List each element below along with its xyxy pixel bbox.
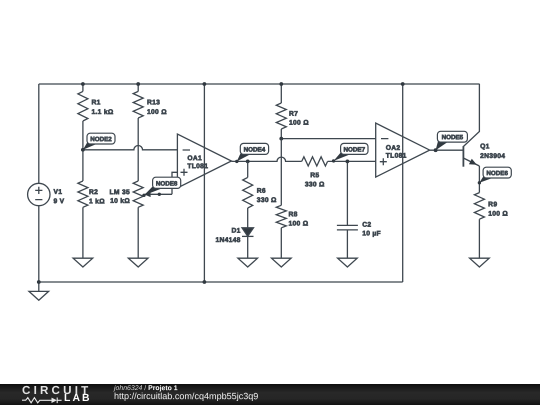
- wire OA1 output: [231, 157, 301, 161]
- transistor Q1 collector: [463, 84, 479, 147]
- svg-text:2N3904: 2N3904: [480, 153, 505, 160]
- svg-text:R2: R2: [89, 189, 98, 196]
- svg-text:OA2: OA2: [386, 145, 401, 152]
- svg-text:TL081: TL081: [187, 163, 208, 170]
- wire node2 row: [83, 146, 177, 150]
- wire OA1 plus lead: [172, 172, 177, 194]
- svg-text:10 kΩ: 10 kΩ: [110, 198, 130, 205]
- svg-text:R7: R7: [289, 111, 298, 118]
- resistor R8: [280, 139, 282, 206]
- junction node2: [81, 148, 85, 152]
- node NODE4: [237, 151, 252, 161]
- wire V1 top lead: [38, 84, 40, 183]
- svg-text:C2: C2: [362, 222, 371, 229]
- wire OA1 power pins: [203, 84, 205, 282]
- resistor R6: [247, 161, 249, 177]
- op-amp OA1: [177, 134, 231, 188]
- node NODE6: [479, 175, 494, 183]
- svg-text:1.1 kΩ: 1.1 kΩ: [91, 109, 113, 116]
- potentiometer wiper arrow: [144, 192, 151, 198]
- wire feedback row: [281, 138, 375, 140]
- node NODE8: [144, 185, 164, 195]
- svg-text:NODE4: NODE4: [244, 146, 266, 153]
- diode D1: [242, 228, 254, 236]
- svg-text:D1: D1: [232, 228, 241, 235]
- junction OA2 vplus: [401, 82, 405, 86]
- svg-text:10 µF: 10 µF: [362, 230, 381, 237]
- svg-text:R1: R1: [91, 99, 100, 106]
- ground under R9: [470, 258, 490, 267]
- junction feedback: [279, 137, 283, 141]
- wire V1 bottom lead: [38, 206, 40, 282]
- transistor Q1 emitter: [463, 158, 479, 166]
- svg-text:100 Ω: 100 Ω: [488, 211, 508, 218]
- svg-text:330 Ω: 330 Ω: [257, 197, 277, 204]
- svg-text:NODE8: NODE8: [156, 180, 178, 187]
- svg-text:NODE2: NODE2: [90, 136, 112, 143]
- potentiometer LM35 body: [133, 181, 143, 207]
- wire R5 to OA2: [328, 160, 376, 162]
- junction OA1 vminus: [203, 280, 207, 284]
- transistor Q1 base bar: [462, 146, 464, 167]
- node NODE5: [436, 139, 449, 150]
- resistor R1: [82, 84, 84, 91]
- ground under C2: [338, 258, 358, 267]
- svg-text:R5: R5: [310, 172, 319, 179]
- ground under pot: [128, 258, 148, 267]
- svg-text:R8: R8: [288, 211, 297, 218]
- junction node4: [246, 160, 250, 164]
- junction R13 top: [136, 82, 140, 86]
- svg-text:NODE5: NODE5: [442, 134, 464, 141]
- node NODE7: [334, 151, 352, 161]
- svg-text:NODE6: NODE6: [486, 170, 508, 177]
- junction OA1 vplus: [203, 82, 207, 86]
- svg-text:R9: R9: [488, 201, 497, 208]
- svg-text:V1: V1: [53, 189, 62, 196]
- junction bottom-left: [37, 280, 41, 284]
- junction R1 top: [81, 82, 85, 86]
- voltage source V1: [28, 183, 50, 205]
- CircuitLab logo: [22, 386, 91, 396]
- node NODE2: [83, 141, 98, 150]
- svg-text:LM 35: LM 35: [110, 189, 130, 196]
- resistor R7: [280, 84, 282, 103]
- wire top rail: [39, 83, 480, 85]
- svg-text:Q1: Q1: [480, 143, 490, 150]
- svg-text:100 Ω: 100 Ω: [289, 120, 309, 127]
- svg-text:1N4148: 1N4148: [215, 237, 240, 244]
- resistor R5: [302, 157, 328, 166]
- ground bottom-left: [38, 282, 40, 291]
- wire Q1 emitter lead: [478, 166, 480, 193]
- svg-text:330 Ω: 330 Ω: [305, 181, 325, 188]
- svg-text:9 V: 9 V: [53, 198, 64, 205]
- junction C2 top: [346, 160, 350, 164]
- junction R7 top: [279, 82, 283, 86]
- junction node5: [434, 148, 438, 152]
- resistor R13: [137, 84, 139, 91]
- svg-text:NODE7: NODE7: [344, 146, 366, 153]
- svg-text:100 Ω: 100 Ω: [288, 221, 308, 228]
- svg-text:100 Ω: 100 Ω: [147, 109, 167, 116]
- svg-text:OA1: OA1: [187, 155, 202, 162]
- svg-text:R13: R13: [147, 99, 160, 106]
- svg-text:R6: R6: [257, 188, 266, 195]
- ground under D1: [238, 258, 258, 267]
- capacitor C2: [346, 161, 348, 225]
- svg-text:1 kΩ: 1 kΩ: [89, 198, 105, 205]
- op-amp OA2: [376, 123, 430, 177]
- resistor R9: [474, 193, 484, 220]
- wire OA2 output: [430, 149, 464, 151]
- resistor R2: [82, 150, 84, 181]
- ground under R8: [272, 258, 292, 267]
- wire OA2 power pins: [402, 84, 404, 282]
- wire bottom rail: [39, 281, 403, 283]
- svg-text:TL081: TL081: [386, 153, 407, 160]
- ground under R2: [73, 258, 93, 267]
